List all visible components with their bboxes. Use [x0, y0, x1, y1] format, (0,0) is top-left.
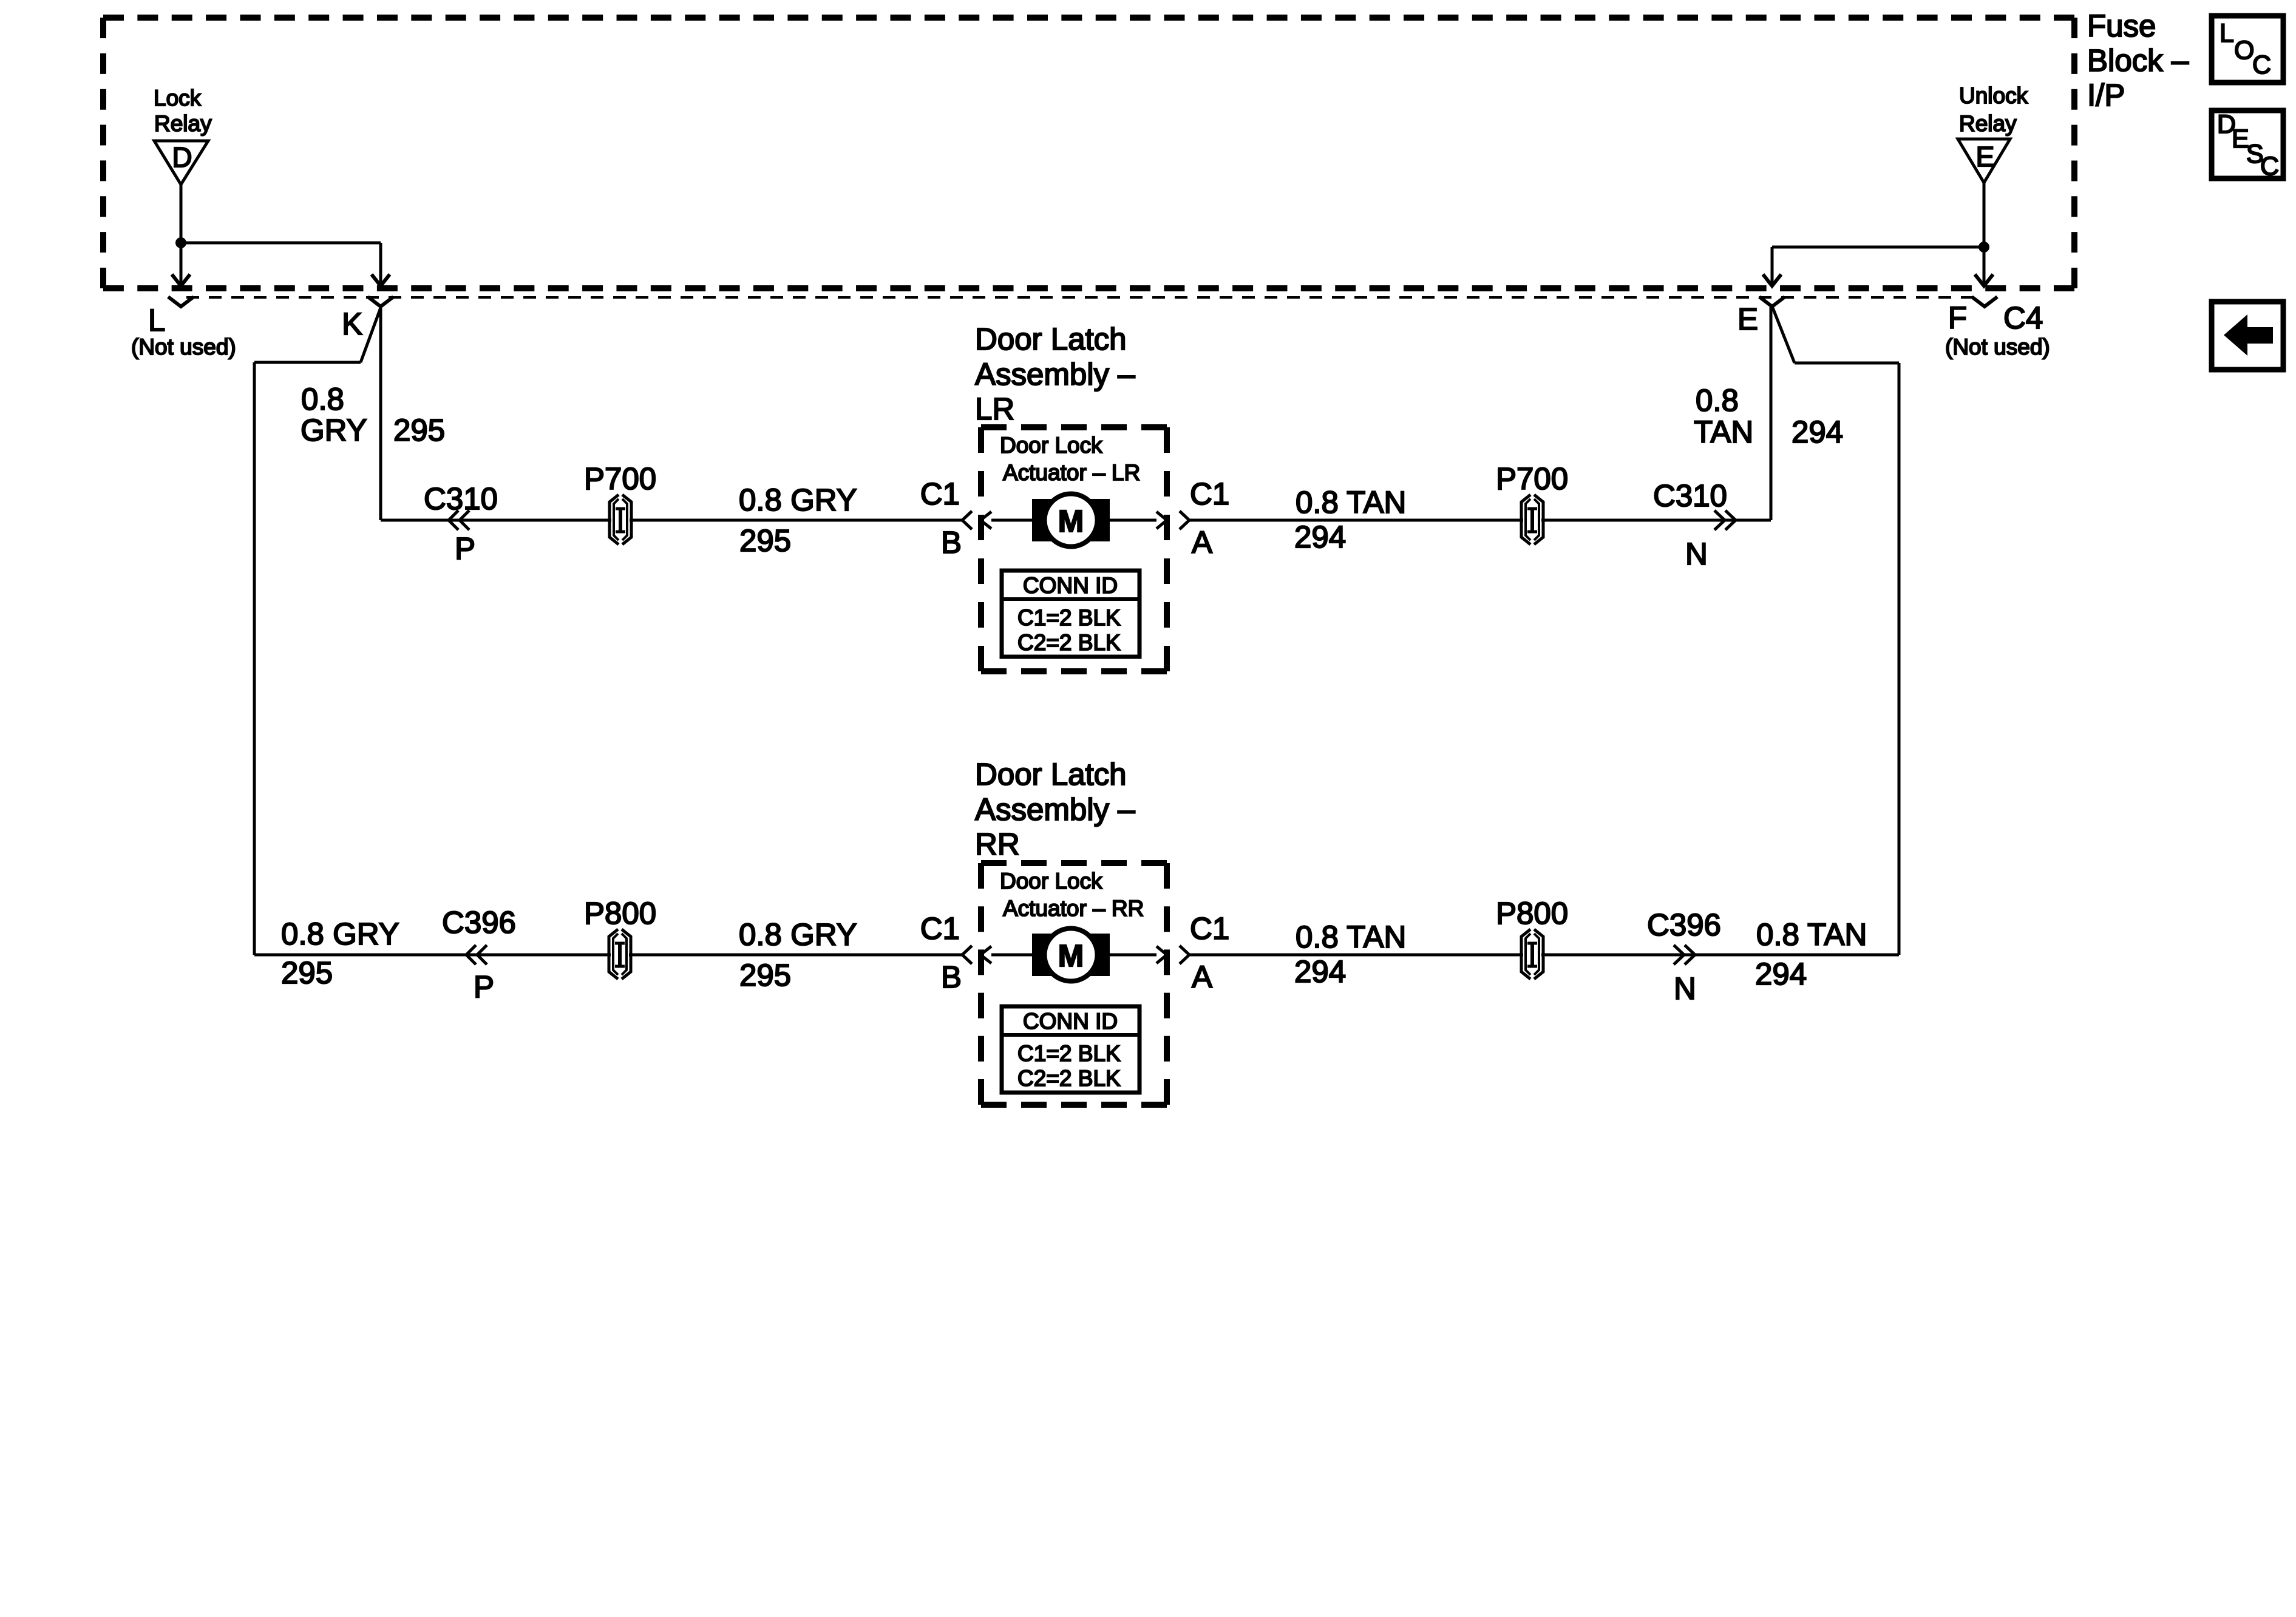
svg-text:Relay: Relay — [1959, 111, 2017, 136]
svg-text:K: K — [342, 307, 362, 341]
svg-text:N: N — [1674, 971, 1696, 1006]
svg-text:A: A — [1192, 525, 1212, 560]
svg-text:(Not used): (Not used) — [1945, 334, 2050, 359]
svg-text:Door Latch: Door Latch — [975, 757, 1126, 792]
svg-text:B: B — [941, 960, 962, 994]
svg-text:C: C — [2260, 152, 2279, 181]
svg-text:C1: C1 — [1190, 911, 1229, 946]
svg-text:B: B — [941, 525, 962, 560]
svg-text:294: 294 — [1294, 954, 1346, 989]
svg-text:P: P — [455, 531, 475, 566]
svg-text:0.8: 0.8 — [1696, 383, 1739, 418]
svg-text:P700: P700 — [584, 461, 656, 496]
svg-text:Actuator – LR: Actuator – LR — [1003, 460, 1140, 485]
svg-text:C: C — [2252, 50, 2271, 80]
svg-text:O: O — [2234, 36, 2254, 65]
svg-text:Door Latch: Door Latch — [975, 322, 1126, 356]
svg-text:LR: LR — [975, 392, 1014, 426]
svg-text:C2=2 BLK: C2=2 BLK — [1017, 630, 1121, 655]
svg-text:RR: RR — [975, 827, 1020, 861]
svg-text:295: 295 — [281, 955, 333, 990]
svg-text:CONN ID: CONN ID — [1023, 1009, 1118, 1034]
svg-text:E: E — [1976, 141, 1995, 172]
svg-text:Assembly –: Assembly – — [975, 792, 1135, 827]
svg-text:P800: P800 — [1496, 896, 1568, 931]
svg-text:C1=2 BLK: C1=2 BLK — [1017, 605, 1121, 630]
svg-text:N: N — [1685, 537, 1708, 571]
svg-text:0.8: 0.8 — [301, 382, 344, 416]
svg-text:0.8 GRY: 0.8 GRY — [281, 917, 399, 951]
svg-text:C1: C1 — [1190, 476, 1229, 511]
svg-text:L: L — [2220, 19, 2234, 48]
svg-text:Lock: Lock — [154, 86, 202, 110]
svg-text:A: A — [1192, 960, 1212, 994]
svg-text:Door Lock: Door Lock — [1000, 869, 1102, 893]
svg-text:Block –: Block – — [2087, 43, 2189, 78]
svg-text:0.8 GRY: 0.8 GRY — [739, 917, 857, 952]
svg-text:Assembly –: Assembly – — [975, 357, 1135, 392]
svg-text:Door Lock: Door Lock — [1000, 433, 1102, 458]
svg-text:C2=2 BLK: C2=2 BLK — [1017, 1066, 1121, 1091]
svg-text:Actuator – RR: Actuator – RR — [1003, 896, 1144, 921]
svg-text:294: 294 — [1294, 520, 1346, 554]
svg-text:295: 295 — [739, 523, 791, 558]
svg-text:294: 294 — [1755, 957, 1807, 991]
svg-text:C4: C4 — [2003, 300, 2043, 335]
svg-text:0.8 GRY: 0.8 GRY — [739, 483, 857, 517]
svg-text:C1: C1 — [920, 476, 960, 511]
svg-text:I/P: I/P — [2087, 78, 2125, 112]
svg-text:P800: P800 — [584, 896, 656, 931]
svg-text:P700: P700 — [1496, 461, 1568, 496]
svg-text:Relay: Relay — [154, 111, 212, 136]
svg-text:0.8 TAN: 0.8 TAN — [1296, 920, 1406, 954]
svg-text:F: F — [1948, 300, 1967, 335]
svg-text:M: M — [1058, 504, 1084, 538]
svg-text:GRY: GRY — [301, 413, 367, 447]
svg-text:0.8 TAN: 0.8 TAN — [1756, 917, 1867, 952]
svg-text:295: 295 — [393, 413, 445, 447]
svg-text:M: M — [1058, 938, 1084, 973]
svg-text:P: P — [474, 969, 494, 1004]
svg-text:0.8 TAN: 0.8 TAN — [1296, 485, 1406, 520]
svg-text:295: 295 — [739, 958, 791, 992]
svg-text:C396: C396 — [442, 905, 516, 940]
svg-text:C310: C310 — [1653, 478, 1727, 513]
svg-text:C310: C310 — [424, 481, 498, 516]
svg-text:C1: C1 — [920, 911, 960, 946]
svg-text:294: 294 — [1792, 415, 1843, 449]
svg-text:(Not used): (Not used) — [131, 334, 236, 359]
svg-text:D: D — [172, 141, 192, 173]
svg-text:C396: C396 — [1647, 907, 1721, 942]
svg-text:CONN ID: CONN ID — [1023, 573, 1118, 598]
svg-text:C1=2 BLK: C1=2 BLK — [1017, 1041, 1121, 1066]
svg-text:L: L — [148, 303, 165, 337]
svg-text:E: E — [1737, 302, 1758, 336]
svg-text:TAN: TAN — [1694, 415, 1753, 449]
svg-text:Fuse: Fuse — [2087, 8, 2156, 43]
svg-text:Unlock: Unlock — [1959, 83, 2028, 108]
